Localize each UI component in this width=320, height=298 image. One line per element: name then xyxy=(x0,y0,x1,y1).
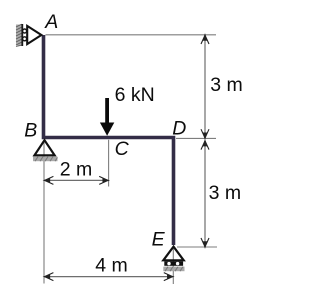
dimension line 2 m xyxy=(45,179,108,181)
support A triangle xyxy=(27,26,41,44)
svg-text:3 m: 3 m xyxy=(210,74,243,96)
support E roller left xyxy=(167,262,170,265)
svg-text:E: E xyxy=(152,228,166,250)
force arrow 6 kN shaft xyxy=(105,98,109,123)
force arrow 6 kN head xyxy=(100,123,114,136)
arrowhead up at top of upper 3 m xyxy=(201,35,209,44)
support E roller right xyxy=(176,262,179,265)
svg-text:4 m: 4 m xyxy=(95,254,128,276)
arrowhead down at bottom of upper 3 m xyxy=(201,129,209,138)
extension line below C xyxy=(108,140,110,187)
arrowhead left of 4 m xyxy=(45,273,54,281)
wall hatch at support A xyxy=(16,24,22,46)
extension line at D level xyxy=(176,137,216,139)
arrowhead up at top of lower 3 m xyxy=(201,141,209,150)
arrowhead right of 4 m xyxy=(164,273,173,281)
extension line below E xyxy=(172,247,174,284)
svg-text:6 kN: 6 kN xyxy=(115,84,155,106)
roller A upper xyxy=(23,29,27,33)
arrowhead right of 2 m xyxy=(99,176,108,184)
frame members A-B-D-E xyxy=(44,35,174,245)
dimension line 4 m xyxy=(45,276,173,278)
svg-text:A: A xyxy=(44,11,58,33)
dimension line 3 m lower xyxy=(204,141,206,247)
arrowhead left of 2 m xyxy=(45,176,54,184)
support B triangle xyxy=(35,140,55,155)
extension line below B xyxy=(43,141,45,284)
extension line at A level xyxy=(46,34,217,36)
svg-text:D: D xyxy=(172,117,186,139)
svg-text:B: B xyxy=(24,120,37,142)
dimension line 3 m upper xyxy=(204,35,206,138)
svg-text:C: C xyxy=(115,138,130,160)
support E roller bar xyxy=(164,261,183,265)
svg-text:3 m: 3 m xyxy=(209,182,242,204)
roller A lower xyxy=(23,37,27,41)
support E triangle xyxy=(163,247,183,261)
arrowhead down at bottom of lower 3 m xyxy=(201,238,209,247)
extension line at E level xyxy=(177,246,217,248)
support B hatch xyxy=(33,157,58,162)
support E hatch xyxy=(163,267,184,272)
svg-text:2 m: 2 m xyxy=(60,159,93,181)
